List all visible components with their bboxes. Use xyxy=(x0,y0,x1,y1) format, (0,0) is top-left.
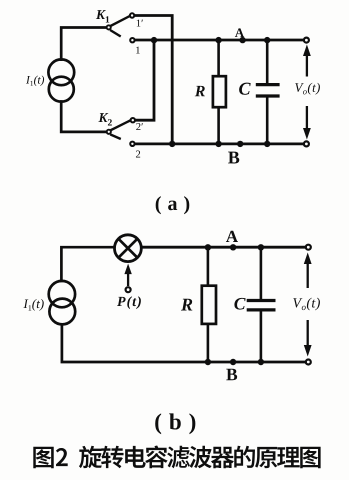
output terminal top circuit b xyxy=(306,245,311,250)
wire from source I1(t) top to mixer circuit b xyxy=(61,247,114,281)
junction dot C bottom circuit b xyxy=(258,359,264,365)
arrow up Vo(t) circuit b xyxy=(304,253,312,289)
switch K1 contact 1 xyxy=(130,38,134,42)
label 1 xyxy=(136,47,140,54)
node B dot circuit b xyxy=(230,359,236,365)
label K1 xyxy=(96,10,109,22)
wire from source I1(t) bottom to switch K2 pole xyxy=(61,102,106,132)
wire from contact 1-prime down to bottom rail B xyxy=(135,16,172,143)
label B circuit b xyxy=(226,369,237,381)
junction dot R bottom circuit b xyxy=(205,359,211,365)
node A dot circuit b xyxy=(230,244,236,250)
label A circuit a xyxy=(235,28,244,37)
label P(t) xyxy=(117,296,141,309)
output terminal bottom circuit a xyxy=(304,141,309,146)
capacitor C circuit a xyxy=(256,40,280,144)
multiplier mixer circuit b xyxy=(115,235,142,262)
junction dot top rail to contact 2-prime xyxy=(151,37,157,43)
arrow down Vo(t) circuit a xyxy=(303,106,311,140)
label A circuit b xyxy=(226,231,238,242)
label 1-prime xyxy=(137,20,143,27)
wire from contact 2-prime up to top rail A xyxy=(135,42,154,121)
label I1(t) circuit a xyxy=(26,76,44,86)
top rail node A circuit b xyxy=(142,246,306,249)
switch K2 contact 2-prime xyxy=(131,118,135,122)
switch K2 lever to contact 2-prime xyxy=(111,121,129,130)
arrow down Vo(t) circuit b xyxy=(304,320,312,357)
bottom rail node B circuit a xyxy=(135,142,303,145)
switch K1 lever stub toward contact 1 xyxy=(111,31,120,36)
label Vo(t) circuit a xyxy=(295,83,320,95)
resistor R circuit a xyxy=(213,40,226,144)
junction dot R top circuit b xyxy=(205,244,211,250)
switch K2 pole xyxy=(107,130,111,134)
junction dot C top circuit b xyxy=(258,244,264,250)
label 2 xyxy=(136,151,140,158)
node B dot circuit a xyxy=(237,141,243,147)
label Vo(t) circuit b xyxy=(293,298,320,311)
capacitor C circuit b xyxy=(247,247,276,362)
arrow up Vo(t) circuit a xyxy=(303,45,311,77)
label C circuit b xyxy=(234,298,245,310)
label R circuit b xyxy=(181,299,192,311)
junction dot bottom rail from contact 1-prime xyxy=(169,141,175,147)
label B circuit a xyxy=(228,152,239,164)
junction dot C top circuit a xyxy=(264,37,270,43)
label 2-prime xyxy=(136,123,143,130)
figure caption: tu2 xuanzhuan dianrong lvboqi de yuanlitu xyxy=(33,446,320,469)
wire from source I1(t) top to switch K1 pole xyxy=(61,28,106,60)
output terminal top circuit a xyxy=(304,38,309,43)
top rail node A circuit a xyxy=(135,39,303,42)
switch K1 contact 1-prime xyxy=(130,13,134,17)
arrow up into mixer from P(t) xyxy=(124,264,131,286)
label I1(t) circuit b xyxy=(23,299,43,311)
terminal P(t) xyxy=(126,287,131,292)
label C circuit a xyxy=(239,83,251,95)
current source I1(t) circuit b xyxy=(49,281,75,325)
resistor R circuit b xyxy=(202,247,216,362)
label R circuit a xyxy=(195,86,205,96)
label K2 xyxy=(98,113,111,125)
switch K1 pole xyxy=(107,25,111,29)
caption (b) xyxy=(155,413,195,434)
current source I1(t) circuit a xyxy=(48,59,74,101)
junction dot R bottom circuit a xyxy=(215,141,221,147)
switch K2 contact 2 xyxy=(130,142,134,146)
node A dot circuit a xyxy=(239,37,245,43)
switch K2 lever stub toward contact 2 xyxy=(111,135,119,139)
junction dot C bottom circuit a xyxy=(264,141,270,147)
junction dot R top circuit a xyxy=(215,37,221,43)
output terminal bottom circuit b xyxy=(306,360,311,365)
wire source bottom and bottom rail node B circuit b xyxy=(62,325,305,362)
switch K1 lever to contact 1-prime xyxy=(111,16,130,26)
caption (a) xyxy=(156,196,190,214)
